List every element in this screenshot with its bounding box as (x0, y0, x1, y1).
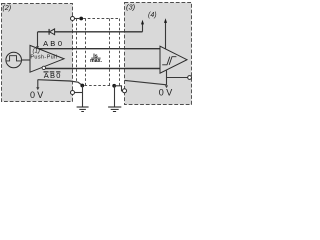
svg-text:(2): (2) (2, 3, 11, 12)
svg-text:A: A (43, 39, 48, 48)
svg-text:0: 0 (159, 87, 164, 97)
svg-text:max.: max. (90, 58, 102, 64)
svg-text:0: 0 (30, 90, 35, 100)
svg-text:B: B (50, 71, 55, 80)
svg-text:(3): (3) (126, 3, 136, 12)
svg-text:0: 0 (56, 71, 60, 80)
svg-text:(1): (1) (33, 48, 40, 54)
svg-text:B: B (50, 39, 55, 48)
svg-text:(4): (4) (148, 12, 157, 19)
svg-text:0: 0 (58, 39, 62, 48)
svg-text:Push-Pull: Push-Pull (30, 55, 57, 61)
svg-text:V: V (166, 87, 172, 97)
svg-text:V: V (37, 90, 43, 100)
svg-text:A: A (44, 71, 49, 80)
